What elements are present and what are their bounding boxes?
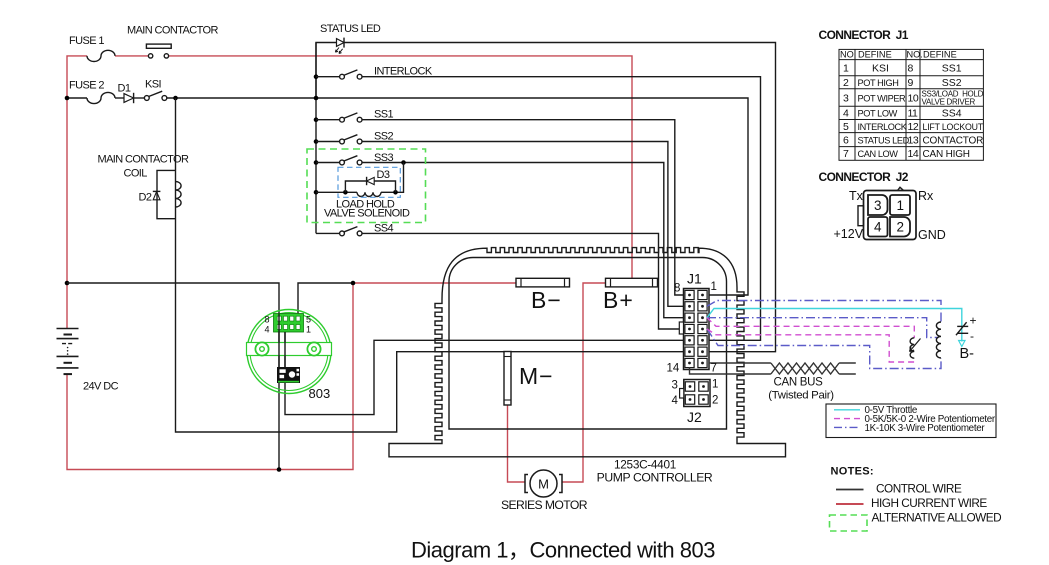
803 daughter chip xyxy=(277,367,300,383)
svg-text:9: 9 xyxy=(908,77,914,89)
svg-text:Diagram 1，Connected with 803: Diagram 1，Connected with 803 xyxy=(411,538,715,563)
wire: KSI output row (to contactor coil branch and right to J1 pin1 riser) xyxy=(167,98,748,295)
connector J2 body xyxy=(684,380,710,407)
wire: SS3 to J1 pin10 xyxy=(362,163,685,318)
switch SS3 xyxy=(314,160,319,165)
svg-text:ALTERNATIVE ALLOWED: ALTERNATIVE ALLOWED xyxy=(872,511,1002,525)
svg-text:D1: D1 xyxy=(118,83,131,95)
wire: 803 internal verticals xyxy=(278,314,280,368)
main contactor MC contacts xyxy=(148,54,152,58)
svg-text:4: 4 xyxy=(843,108,849,120)
svg-text:1: 1 xyxy=(306,325,311,335)
node: left red bus / fuse2 junction xyxy=(65,96,70,101)
svg-text:COIL: COIL xyxy=(124,168,148,180)
alternative-allowed green dashed box xyxy=(307,149,426,223)
switch SS4 xyxy=(316,232,340,234)
series motor M xyxy=(525,470,562,497)
svg-text:GND: GND xyxy=(918,228,946,242)
connector 803 (tiller card) xyxy=(247,310,332,394)
svg-text:SS4: SS4 xyxy=(374,223,393,235)
svg-text:CONTACTOR: CONTACTOR xyxy=(923,135,984,146)
svg-text:2: 2 xyxy=(712,395,718,407)
svg-text:SERIES MOTOR: SERIES MOTOR xyxy=(501,498,588,512)
svg-text:CAN HIGH: CAN HIGH xyxy=(923,149,970,160)
connector J1 left tab xyxy=(679,322,683,334)
svg-text:8: 8 xyxy=(265,315,270,325)
wire: interlock to J1 pin5 xyxy=(362,77,761,341)
wire: red high-current bus (fuse1 row, left vertical, battery, B- feed, bottom return) xyxy=(67,56,632,482)
diode D3 xyxy=(367,177,375,184)
svg-text:3: 3 xyxy=(672,380,678,392)
pump controller inner box xyxy=(449,258,727,430)
wire: CAN LOW from J1 pin7 xyxy=(771,363,839,374)
svg-text:8: 8 xyxy=(908,63,914,75)
803 pin numbers xyxy=(265,315,312,335)
node: B- junction xyxy=(351,281,356,286)
svg-text:VALVE SOLENOID: VALVE SOLENOID xyxy=(324,208,410,220)
connector J2 pins xyxy=(685,382,694,391)
status LED wire row xyxy=(316,43,337,99)
svg-text:CONNECTOR J1: CONNECTOR J1 xyxy=(819,28,909,42)
svg-text:SS4: SS4 xyxy=(942,108,962,120)
diode D2 xyxy=(153,190,161,192)
wire: bus to solenoid xyxy=(316,191,357,193)
svg-text:NO.: NO. xyxy=(907,50,923,60)
svg-text:7: 7 xyxy=(843,148,849,160)
svg-text:7: 7 xyxy=(711,363,717,375)
svg-text:1K-10K 3-Wire Potentiometer: 1K-10K 3-Wire Potentiometer xyxy=(865,423,986,434)
wire: 803 lift-lockout line to J1 pin12 xyxy=(285,331,694,415)
svg-text:SS2: SS2 xyxy=(942,77,962,89)
svg-text:2: 2 xyxy=(843,77,849,89)
svg-text:POT LOW: POT LOW xyxy=(858,109,898,119)
wire: pot high (blue dash-dot) J1 pin2 to 3-wire pot top xyxy=(707,301,941,369)
svg-text:B-: B- xyxy=(960,346,975,362)
svg-text:5: 5 xyxy=(306,315,311,325)
svg-text:SS3: SS3 xyxy=(374,152,393,164)
svg-text:B+: B+ xyxy=(603,287,634,313)
connector J2 pinout symbol xyxy=(858,187,916,239)
svg-text:D2: D2 xyxy=(139,192,152,204)
svg-text:MAIN CONTACTOR: MAIN CONTACTOR xyxy=(98,154,189,166)
fuse FUSE1 xyxy=(87,50,115,61)
svg-text:2: 2 xyxy=(897,220,905,235)
switch bus vertical xyxy=(315,43,317,234)
svg-text:1: 1 xyxy=(711,281,717,293)
svg-text:PUMP CONTROLLER: PUMP CONTROLLER xyxy=(597,471,713,485)
svg-text:INTERLOCK: INTERLOCK xyxy=(374,66,433,78)
svg-text:CONNECTOR J2: CONNECTOR J2 xyxy=(819,170,909,184)
wire: battery+ tap to 803 pin (left) xyxy=(67,283,279,470)
svg-text:803: 803 xyxy=(309,386,331,401)
svg-text:KSI: KSI xyxy=(872,63,889,75)
svg-text:+12V: +12V xyxy=(834,227,864,241)
wire: fuse2 to D1 xyxy=(115,97,124,99)
wire: D1 to KSI xyxy=(134,97,145,99)
diode D1 xyxy=(124,94,134,103)
svg-text:1: 1 xyxy=(712,379,718,391)
load hold valve blue dashed box xyxy=(338,167,400,197)
wire: status LED to J1 pin6 xyxy=(344,43,776,352)
svg-text:KSI: KSI xyxy=(145,79,161,91)
node: 803 return to battery- xyxy=(277,467,282,472)
node: solenoid left xyxy=(343,190,348,195)
wire: main contactor coil drive (down, across, up into J1 pin13) xyxy=(176,98,695,432)
svg-text:SS1: SS1 xyxy=(374,109,393,121)
wire: solenoid branch from SS3 xyxy=(396,163,404,193)
svg-text:LIFT LOCKOUT: LIFT LOCKOUT xyxy=(923,122,984,132)
switch INTERLOCK xyxy=(314,74,319,79)
wire: throttle (cyan) J1 pin3 xyxy=(707,309,962,342)
wire: SS4 to J1 pin11 xyxy=(362,233,685,329)
svg-text:3: 3 xyxy=(874,198,882,213)
fuse FUSE2 xyxy=(87,92,115,103)
wire: SS1 to J1 pin8 xyxy=(362,120,685,295)
pump controller case (finned) xyxy=(389,248,786,457)
throttle 0-5V symbol xyxy=(956,322,968,335)
node: red bus to 803 tap xyxy=(65,281,70,286)
wire: D3 branch xyxy=(345,181,395,192)
svg-text:DEFINE: DEFINE xyxy=(923,50,957,60)
svg-text:VALVE DRIVER: VALVE DRIVER xyxy=(922,98,976,107)
labels (CAD font) xyxy=(69,23,433,393)
connector J1 pins xyxy=(685,290,694,299)
svg-text:B−: B− xyxy=(531,287,562,313)
svg-text:1: 1 xyxy=(897,198,905,213)
svg-text:Rx: Rx xyxy=(918,189,934,203)
svg-text:M: M xyxy=(538,477,549,492)
svg-text:4: 4 xyxy=(265,325,270,335)
svg-text:24V DC: 24V DC xyxy=(83,381,119,393)
status LED xyxy=(337,39,345,47)
svg-text:MAIN CONTACTOR: MAIN CONTACTOR xyxy=(127,25,218,37)
svg-text:10: 10 xyxy=(908,92,919,104)
svg-text:6: 6 xyxy=(843,134,849,146)
main contactor coil (inductor) xyxy=(176,182,182,208)
svg-text:STATUS LED: STATUS LED xyxy=(858,135,910,145)
wire: D2 branch rectangle xyxy=(157,170,176,218)
connector J1 body xyxy=(684,289,710,370)
svg-text:4: 4 xyxy=(874,220,882,235)
svg-text:5: 5 xyxy=(843,121,849,133)
svg-text:1253C-4401: 1253C-4401 xyxy=(614,458,676,472)
terminal B- xyxy=(516,278,570,287)
table CONNECTOR J1 xyxy=(839,49,983,160)
svg-text:1: 1 xyxy=(843,63,849,75)
svg-text:J1: J1 xyxy=(687,271,702,287)
svg-text:CAN LOW: CAN LOW xyxy=(858,149,899,159)
potentiometer 2-wire wiper arrow xyxy=(910,339,921,352)
svg-text:14: 14 xyxy=(908,148,919,160)
svg-text:3: 3 xyxy=(843,92,849,104)
svg-text:FUSE 1: FUSE 1 xyxy=(69,35,104,47)
svg-text:J2: J2 xyxy=(687,409,702,425)
svg-text:POT HIGH: POT HIGH xyxy=(858,78,899,88)
wire: SS2 to J1 pin9 xyxy=(362,142,685,307)
legend box xyxy=(826,404,996,438)
svg-text:NO.: NO. xyxy=(840,50,856,60)
wire: 2-wire pot (magenta dashed) J1 pin3/pin4 xyxy=(707,318,914,362)
svg-text:STATUS LED: STATUS LED xyxy=(320,23,381,35)
node: bus-solenoid row xyxy=(314,190,319,195)
node: SS3 / solenoid junction xyxy=(401,160,406,165)
svg-text:13: 13 xyxy=(908,134,919,146)
switch KSI xyxy=(144,96,149,101)
svg-text:4: 4 xyxy=(672,395,679,407)
svg-text:M−: M− xyxy=(519,363,554,389)
terminal B+ xyxy=(606,278,658,287)
wire: CAN HIGH from J1 pin14 xyxy=(771,363,839,374)
svg-text:14: 14 xyxy=(667,363,680,375)
svg-text:SS2: SS2 xyxy=(374,131,393,143)
svg-text:FUSE 2: FUSE 2 xyxy=(69,80,104,92)
svg-text:Tx: Tx xyxy=(849,189,864,203)
potentiometer 2-wire coil xyxy=(910,338,914,358)
svg-text:(Twisted Pair): (Twisted Pair) xyxy=(768,390,834,402)
svg-text:D3: D3 xyxy=(377,169,390,181)
svg-text:-: - xyxy=(970,329,974,343)
svg-text:SS1: SS1 xyxy=(942,63,962,75)
connector J2 left tab xyxy=(680,389,684,399)
terminal M- xyxy=(504,352,511,406)
potentiometer 3-wire coil xyxy=(936,322,941,358)
svg-text:HIGH CURRENT WIRE: HIGH CURRENT WIRE xyxy=(871,496,987,510)
wire: 803 pin to B- net xyxy=(298,283,353,322)
switch SS1 xyxy=(314,117,319,122)
load hold valve solenoid (inductor) xyxy=(357,192,381,196)
svg-text:11: 11 xyxy=(908,108,919,120)
svg-text:12: 12 xyxy=(908,121,919,133)
node: bus-KSI row junction xyxy=(314,96,319,101)
svg-text:NOTES:: NOTES: xyxy=(831,466,874,478)
throttle arrow head xyxy=(959,341,965,347)
svg-text:INTERLOCK: INTERLOCK xyxy=(858,122,908,132)
node: KSI output junction xyxy=(173,96,178,101)
main contactor MC tips bar xyxy=(146,44,171,48)
switch SS2 xyxy=(314,139,319,144)
svg-text:DEFINE: DEFINE xyxy=(858,50,892,60)
battery 24V DC xyxy=(57,328,79,330)
svg-text:8: 8 xyxy=(674,283,680,295)
svg-text:+: + xyxy=(970,314,977,328)
node: solenoid right xyxy=(393,190,398,195)
svg-text:CONTROL WIRE: CONTROL WIRE xyxy=(876,482,962,496)
svg-text:POT WIPER: POT WIPER xyxy=(858,93,907,103)
svg-text:CAN BUS: CAN BUS xyxy=(773,377,823,389)
